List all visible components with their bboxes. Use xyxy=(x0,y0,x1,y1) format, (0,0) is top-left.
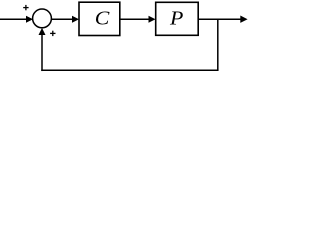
plus sign top-left of summing junction xyxy=(23,5,28,10)
block P xyxy=(156,2,199,35)
summing junction xyxy=(33,9,52,28)
arrowhead input xyxy=(26,16,33,23)
wire input xyxy=(0,18,27,20)
arrowhead into P xyxy=(149,16,156,23)
plus sign below-right of summing junction xyxy=(50,31,55,36)
wire C to P xyxy=(120,18,150,20)
wire feedback up to summing junction xyxy=(41,34,43,70)
arrowhead into C xyxy=(72,16,79,23)
wire feedback bottom xyxy=(42,69,218,71)
wire summing junction to C xyxy=(51,18,73,20)
svg-text:C: C xyxy=(95,9,110,30)
wire P to output xyxy=(198,18,241,20)
arrowhead output xyxy=(240,16,247,23)
arrowhead feedback into summing junction xyxy=(39,28,46,35)
svg-text:P: P xyxy=(169,9,184,30)
wire branch down xyxy=(217,19,219,70)
block C xyxy=(79,2,120,35)
